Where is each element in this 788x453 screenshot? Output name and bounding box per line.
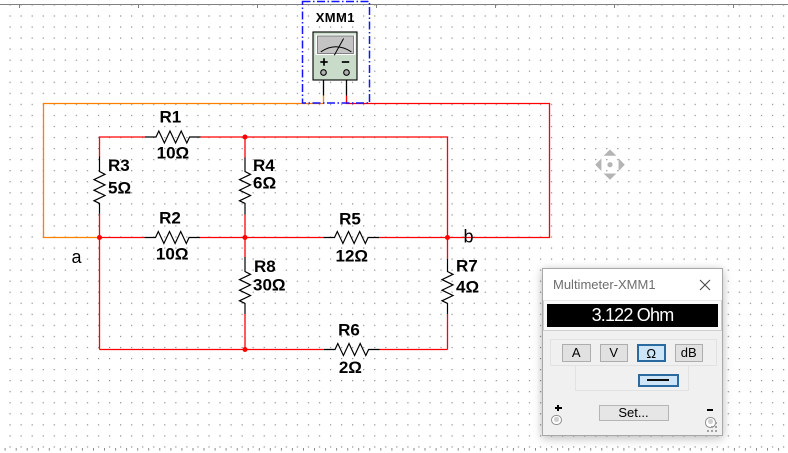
minus marking: [342, 61, 349, 63]
terminal +: [321, 70, 327, 76]
wire red left vertical below node a: [99, 214, 101, 350]
wire red R7 branch vertical: [447, 238, 449, 350]
svg-text:4Ω: 4Ω: [456, 277, 479, 296]
node a junction: [97, 235, 102, 240]
resistor R4: [240, 158, 251, 215]
wire red R8 branch vertical: [244, 238, 246, 350]
svg-text:R2: R2: [159, 208, 181, 227]
svg-text:R7: R7: [456, 256, 478, 275]
svg-text:R1: R1: [160, 107, 182, 126]
meter scale arc: [321, 47, 352, 52]
svg-text:XMM1: XMM1: [316, 10, 355, 25]
junction dot middle R4/R8: [243, 235, 248, 240]
svg-text:b: b: [464, 226, 474, 246]
sheet border top line: [0, 4, 788, 8]
terminal -: [344, 70, 350, 76]
svg-text:R3: R3: [108, 156, 130, 175]
svg-text:R8: R8: [254, 257, 276, 276]
resistor R2: [145, 232, 201, 244]
junction dot top R4: [243, 135, 248, 140]
sheet border bottom tick row: [5, 448, 780, 451]
resistor R5: [324, 232, 380, 244]
resistor R3: [94, 157, 105, 214]
svg-text:R6: R6: [338, 320, 360, 339]
svg-text:12Ω: 12Ω: [336, 246, 369, 265]
svg-text:10Ω: 10Ω: [156, 244, 189, 263]
multimeter XMM1 body: [313, 32, 357, 80]
svg-text:10Ω: 10Ω: [157, 143, 190, 162]
junction dot bottom R8: [243, 347, 248, 352]
resistor R8: [240, 257, 251, 314]
node b junction: [445, 235, 450, 240]
wire red middle row: [100, 237, 448, 239]
plus marking: [320, 58, 327, 65]
svg-text:2Ω: 2Ω: [339, 358, 362, 377]
resistor R1: [145, 131, 201, 143]
svg-text:5Ω: 5Ω: [108, 178, 131, 197]
svg-text:a: a: [72, 247, 83, 267]
selection box around XMM1: [303, 2, 370, 104]
pan origin icon: [595, 150, 625, 180]
wire orange top from node a loop to XMM1 plus terminal: [44, 96, 324, 238]
multimeter dialog: [542, 268, 723, 436]
wire red bottom row: [100, 349, 448, 351]
meter needle: [334, 39, 343, 56]
wire red from XMM1 minus terminal to node b: [347, 96, 550, 238]
svg-text:30Ω: 30Ω: [253, 275, 286, 294]
svg-text:6Ω: 6Ω: [253, 173, 276, 192]
multimeter XMM1 leads: [324, 80, 347, 96]
svg-text:R4: R4: [253, 156, 275, 175]
resistor R6: [324, 344, 380, 356]
svg-text:R5: R5: [339, 209, 361, 228]
wire red R4 branch vertical: [244, 137, 246, 238]
wire red top row R1: [100, 137, 448, 238]
resistor R7: [442, 259, 453, 314]
